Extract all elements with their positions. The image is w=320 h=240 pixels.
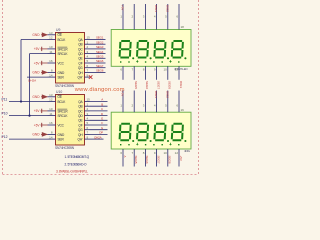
- svg-text:DIG2: DIG2: [165, 5, 169, 12]
- svg-text:SEG6: SEG6: [145, 156, 149, 164]
- pin name GND U9: [58, 71, 65, 75]
- display DS1 top pin 5: [165, 4, 169, 30]
- display DS2 top pin 5: [165, 91, 169, 113]
- svg-text:8: 8: [143, 151, 145, 155]
- svg-text:SEG6: SEG6: [145, 81, 149, 89]
- pin 1 stub right U9: [85, 40, 90, 44]
- net label G: [101, 126, 104, 130]
- pin name VCC U10: [58, 123, 65, 127]
- pin 5 stub right U10: [85, 121, 90, 125]
- svg-text:1: 1: [120, 104, 122, 108]
- wire U9 QC net: [90, 48, 106, 50]
- pin 2 stub right U9: [85, 45, 90, 49]
- pin name SRCLK U10: [58, 114, 69, 118]
- svg-text:A: A: [123, 156, 127, 158]
- svg-text:9: 9: [154, 151, 156, 155]
- svg-text:QF: QF: [78, 123, 82, 127]
- svg-text:6: 6: [176, 104, 178, 108]
- svg-text:SRCLK: SRCLK: [58, 114, 69, 118]
- net label QH2A on U10 QH': [94, 135, 102, 139]
- svg-text:6: 6: [120, 68, 122, 72]
- pin 13 stub left U10: [48, 93, 56, 97]
- svg-text:BCLK: BCLK: [58, 100, 67, 104]
- svg-text:16: 16: [49, 59, 53, 63]
- pin name QB U9: [78, 43, 82, 47]
- svg-text:SEG5: SEG5: [96, 55, 104, 59]
- pin name QA U9: [78, 38, 83, 42]
- svg-text:+5V: +5V: [121, 5, 125, 10]
- pin 9 stub right U10: [85, 135, 90, 139]
- svg-text:SEG1: SEG1: [96, 36, 104, 40]
- pin name QH U9: [78, 71, 83, 75]
- pin name SER U9: [58, 76, 65, 80]
- net label C: [101, 107, 104, 111]
- svg-text:QH2A: QH2A: [28, 78, 36, 82]
- svg-text:10: 10: [163, 68, 167, 72]
- display DS1 top pin 4: [154, 4, 158, 30]
- svg-text:BCLK: BCLK: [58, 38, 67, 42]
- display DS2 bottom pin 10: [163, 149, 171, 167]
- wire U10 QD net: [90, 115, 108, 117]
- svg-text:13: 13: [49, 93, 53, 97]
- IC U10 74HC595 body: [56, 95, 85, 146]
- digit 8 #3 of DS1: [154, 41, 165, 58]
- net label SEG5: [96, 55, 104, 59]
- pin name QF U10: [78, 123, 82, 127]
- pin 2 stub right U10: [85, 107, 90, 111]
- pin name QD U10: [78, 114, 83, 118]
- svg-text:SEG7: SEG7: [156, 81, 160, 89]
- pin 14 stub left U10: [48, 135, 56, 139]
- svg-text:12: 12: [175, 151, 179, 155]
- svg-text:12: 12: [49, 98, 53, 102]
- svg-text:SEG8: SEG8: [168, 156, 172, 164]
- pin 16 stub left U10: [48, 121, 56, 125]
- net label SEG1: [96, 36, 104, 40]
- svg-text:18: 18: [181, 25, 185, 29]
- svg-text:3: 3: [143, 104, 145, 108]
- pin name OE U10: [58, 95, 62, 99]
- svg-text:5: 5: [165, 104, 167, 108]
- pin name QC U9: [78, 47, 83, 51]
- pin 13 stub left U9: [48, 31, 56, 35]
- pin name QC U10: [78, 109, 83, 113]
- svg-text:6: 6: [176, 15, 178, 19]
- wire U9 QA net: [90, 39, 106, 41]
- svg-text:DIG1: DIG1: [154, 91, 158, 98]
- svg-text:GND: GND: [32, 95, 40, 99]
- pin 4 stub right U9: [85, 55, 90, 59]
- display DS2 bottom pin 6: [120, 149, 126, 167]
- svg-text:G: G: [101, 126, 104, 130]
- svg-text:+5V: +5V: [34, 123, 41, 127]
- svg-text:SER: SER: [58, 76, 65, 80]
- svg-text:SER: SER: [58, 138, 65, 142]
- svg-text:4: 4: [154, 15, 156, 19]
- wire U10 QC net: [90, 110, 108, 112]
- net label D: [101, 112, 104, 116]
- pin 4 stub right U10: [85, 117, 90, 121]
- svg-text:2: 2: [132, 15, 134, 19]
- svg-text:7: 7: [132, 68, 134, 72]
- pin name QG U10: [78, 128, 83, 132]
- decimal point #4 of DS1: [184, 57, 186, 59]
- svg-text:QE: QE: [78, 119, 82, 123]
- net label P10: [2, 112, 8, 116]
- wire U10 QG net: [90, 129, 108, 131]
- wire U10 QH net: [90, 133, 108, 135]
- svg-text:GND: GND: [32, 71, 40, 75]
- display DS2 type label: [184, 149, 191, 153]
- wire U9 QG net: [90, 67, 106, 69]
- display DS2 bottom pin 9: [154, 149, 160, 167]
- pin 8 stub left U10: [48, 131, 56, 135]
- pin name SRCLK U9: [58, 52, 69, 56]
- svg-text:1: 1: [120, 15, 122, 19]
- svg-text:QH': QH': [78, 138, 83, 142]
- svg-text:SEG8: SEG8: [168, 81, 172, 89]
- pin name OE U9: [58, 33, 62, 37]
- svg-text:SEG4: SEG4: [96, 50, 104, 54]
- wire P10 to U10 SRCLK: [9, 115, 48, 117]
- pin name QA U10: [78, 100, 83, 104]
- display DS2 bottom pin 12: [175, 149, 183, 167]
- svg-text:QG: QG: [78, 128, 83, 132]
- svg-text:SN74HC595N: SN74HC595N: [55, 84, 75, 88]
- IC U10 part number SN74HC595N: [55, 146, 75, 150]
- wire U9 SER stub: [27, 76, 48, 78]
- pin 7 stub right U9: [85, 69, 90, 73]
- pin 6 stub right U9: [85, 64, 90, 68]
- display DS1 bottom pin 10: [163, 66, 171, 89]
- svg-text:SN74HC595N: SN74HC595N: [55, 146, 75, 150]
- display DS2 top pin 4: [154, 91, 158, 113]
- svg-text:SRCLR: SRCLR: [58, 47, 69, 51]
- net label SEG3: [96, 45, 104, 49]
- power port +5V at U9 SRCLR: [34, 47, 48, 52]
- display DS1 bottom pin 9: [154, 66, 160, 89]
- pin 3 stub right U10: [85, 112, 90, 116]
- pin 12 stub left U9: [48, 36, 56, 40]
- svg-text:U9: U9: [56, 28, 60, 32]
- pin name SRCLR U10: [58, 109, 69, 113]
- watermark www.diangon.com: [74, 87, 125, 93]
- pin 15 stub right U10: [85, 98, 91, 102]
- svg-text:QB: QB: [78, 43, 82, 47]
- pin name BCLK U10: [58, 100, 67, 104]
- svg-text:U10: U10: [56, 90, 62, 94]
- svg-text:9: 9: [87, 135, 89, 139]
- svg-text:16: 16: [49, 121, 53, 125]
- power port GND at U10 OE: [32, 94, 48, 99]
- svg-text:VCC: VCC: [58, 123, 65, 127]
- svg-text:4DIG: 4DIG: [184, 149, 191, 153]
- svg-text:10: 10: [163, 151, 167, 155]
- svg-text:SEG5: SEG5: [134, 156, 138, 164]
- svg-text:GND: GND: [58, 71, 65, 75]
- svg-text:7: 7: [132, 151, 134, 155]
- pin 11 stub left U10: [48, 112, 56, 116]
- pin 9 stub right U9: [85, 73, 90, 77]
- net label E: [101, 117, 103, 121]
- net label SEG6: [96, 59, 104, 63]
- pin 6 stub right U10: [85, 126, 90, 130]
- pin name SER U10: [58, 138, 65, 142]
- svg-text:DIG2: DIG2: [165, 91, 169, 98]
- net label P11: [2, 98, 8, 102]
- svg-text:SEG8: SEG8: [96, 69, 104, 73]
- net label SEG8: [96, 69, 104, 73]
- svg-text:16: 16: [181, 108, 185, 112]
- wire U9 SRCLK to bus: [30, 53, 48, 55]
- svg-text:VCC: VCC: [58, 61, 65, 65]
- svg-text:QE: QE: [78, 57, 82, 61]
- svg-text:5: 5: [165, 15, 167, 19]
- note line 3: [56, 170, 88, 174]
- pin name VCC U9: [58, 61, 65, 65]
- wire U10 QA net: [90, 101, 108, 103]
- display DS2 top pin 3: [143, 91, 146, 113]
- svg-text:A: A: [101, 98, 103, 102]
- svg-text:1. 5TE0N68GMT-Q: 1. 5TE0N68GMT-Q: [65, 155, 90, 159]
- svg-text:www.diangon.com: www.diangon.com: [74, 87, 125, 93]
- sheet border left: [2, 0, 4, 175]
- svg-text:SEG7: SEG7: [156, 156, 160, 164]
- svg-text:OE: OE: [58, 95, 62, 99]
- pin 14 stub left U9: [48, 73, 56, 77]
- wire U9 QH net: [90, 71, 106, 73]
- svg-text:DIG1: DIG1: [154, 5, 158, 12]
- wire vertical P10 bus: [29, 54, 31, 116]
- svg-text:10: 10: [49, 107, 53, 111]
- svg-text:QH': QH': [78, 76, 83, 80]
- pin 8 stub left U9: [48, 69, 56, 73]
- sheet border right: [198, 0, 200, 175]
- pin 7 stub right U10: [85, 131, 90, 135]
- display DS1 4-digit 7-segment body: [111, 30, 191, 67]
- note line 2: [65, 162, 88, 166]
- digit 8 #2 of DS2: [137, 124, 148, 141]
- svg-text:SRCLK: SRCLK: [58, 52, 69, 56]
- svg-text:QB: QB: [78, 105, 82, 109]
- svg-text:QF: QF: [78, 61, 82, 65]
- digit 8 #1 of DS2: [120, 124, 131, 141]
- segment tick marks of DS2: [120, 143, 180, 146]
- power port GND at U9 GND: [32, 70, 48, 75]
- display DS1 bottom pin 8: [143, 66, 149, 89]
- pin name QG U9: [78, 66, 83, 70]
- svg-text:OE: OE: [58, 33, 62, 37]
- svg-text:8: 8: [143, 68, 145, 72]
- net label DP: [99, 131, 103, 135]
- power port GND at U10 GND: [32, 132, 48, 137]
- pin name QH&#39; U9: [78, 76, 83, 80]
- svg-text:GND: GND: [58, 133, 65, 137]
- IC U9 designator: [56, 28, 60, 32]
- net label SEG7: [96, 64, 104, 68]
- svg-text:6: 6: [120, 151, 122, 155]
- pin name QB U10: [78, 105, 82, 109]
- pin 10 stub left U9: [48, 45, 56, 49]
- pin name QH U10: [78, 133, 83, 137]
- svg-text:B: B: [101, 102, 103, 106]
- svg-text:3. 8YA8GL-GVJ8-NNPLL: 3. 8YA8GL-GVJ8-NNPLL: [56, 170, 88, 174]
- decimal point #2 of DS1: [150, 57, 152, 59]
- decimal point #3 of DS2: [167, 140, 169, 142]
- decimal point #4 of DS2: [184, 140, 186, 142]
- display DS1 type label: [174, 67, 188, 71]
- svg-text:QG: QG: [78, 66, 83, 70]
- net label A: [101, 98, 103, 102]
- svg-text:+5V: +5V: [34, 47, 41, 51]
- note line 1: [65, 155, 90, 159]
- svg-text:DIG3: DIG3: [179, 81, 183, 88]
- pin name QH&#39; U10: [78, 138, 83, 142]
- net label SEG2: [96, 40, 104, 44]
- power port +5V at U10 VCC: [34, 123, 48, 128]
- display DS1 bottom pin 12: [175, 66, 183, 88]
- wire U9 QD net: [90, 53, 106, 55]
- svg-text:P12: P12: [2, 135, 8, 139]
- net label B: [101, 102, 103, 106]
- svg-text:SEG2: SEG2: [96, 40, 104, 44]
- svg-text:SEG7: SEG7: [96, 64, 104, 68]
- svg-text:SEG5: SEG5: [134, 81, 138, 89]
- wire P12 to U10 SER: [9, 138, 48, 140]
- svg-text:DP: DP: [99, 131, 103, 135]
- svg-text:12: 12: [49, 36, 53, 40]
- display DS1 corner pin number 18: [181, 25, 185, 29]
- pin name SRCLR U9: [58, 47, 69, 51]
- power port +5V at U10 SRCLR: [34, 109, 48, 114]
- display DS2 top pin 1: [120, 91, 124, 113]
- net label F: [101, 121, 103, 125]
- svg-text:6: 6: [87, 126, 89, 130]
- no connect X on U9 QH': [89, 75, 93, 79]
- pin 16 stub left U9: [48, 59, 56, 63]
- pin 10 stub left U10: [48, 107, 56, 111]
- junction P10 bus: [28, 115, 30, 117]
- wire U10 QE net: [90, 119, 108, 121]
- decimal point #2 of DS2: [150, 140, 152, 142]
- svg-text:P11: P11: [2, 98, 8, 102]
- svg-text:11: 11: [49, 112, 52, 116]
- pin 11 stub left U9: [48, 50, 56, 54]
- svg-text:SEG3: SEG3: [96, 45, 104, 49]
- svg-text:11: 11: [49, 50, 52, 54]
- svg-text:14: 14: [49, 135, 53, 139]
- digit 8 #2 of DS1: [137, 41, 148, 58]
- svg-text:3: 3: [143, 15, 145, 19]
- display DS2 bottom pin 7: [132, 149, 138, 167]
- wire U9 QB net: [90, 43, 106, 45]
- power port GND at U9 OE: [32, 32, 48, 37]
- svg-text:10: 10: [49, 45, 53, 49]
- svg-text:2. 5TE0666HD-O: 2. 5TE0666HD-O: [65, 162, 88, 166]
- pin 12 stub left U10: [48, 98, 56, 102]
- display DS2 4-digit 7-segment body: [111, 112, 191, 149]
- wire U9 QE net: [90, 57, 106, 59]
- decimal point #1 of DS2: [132, 140, 134, 142]
- display DS1 bottom pin 7: [132, 66, 138, 89]
- display DS1 top pin 2: [132, 4, 135, 30]
- segment tick marks of DS1: [120, 60, 180, 63]
- display DS1 bottom pin 6: [120, 66, 123, 80]
- wire P11 to U10 BCLK: [9, 101, 48, 103]
- digit 8 #1 of DS1: [120, 41, 131, 58]
- svg-text:P10: P10: [2, 112, 8, 116]
- display DS2 top pin 6: [176, 91, 179, 113]
- pin name QF U9: [78, 61, 82, 65]
- IC U9 74HC595 body: [56, 33, 85, 84]
- display DS2 corner pin number 16: [181, 108, 185, 112]
- wire U9 BCLK to bus: [21, 39, 48, 41]
- svg-text:SEG6: SEG6: [96, 59, 104, 63]
- IC U9 part number SN74HC595N: [55, 84, 75, 88]
- svg-text:E: E: [101, 117, 103, 121]
- IC U10 designator: [56, 90, 62, 94]
- junction P11 bus: [20, 100, 22, 102]
- wire vertical P11 bus: [20, 40, 22, 102]
- net label SEG4: [96, 50, 104, 54]
- svg-text:GND: GND: [32, 33, 40, 37]
- pin name BCLK U9: [58, 38, 67, 42]
- svg-text:9: 9: [154, 68, 156, 72]
- svg-text:12: 12: [175, 68, 179, 72]
- wire U10 QF net: [90, 124, 108, 126]
- pin name GND U10: [58, 133, 65, 137]
- wire U10 QH' cascade: [90, 138, 104, 140]
- wire U9 QF net: [90, 62, 106, 64]
- svg-text:13: 13: [49, 31, 53, 35]
- pin name QD U9: [78, 52, 83, 56]
- svg-text:SRCLR: SRCLR: [58, 109, 69, 113]
- svg-text:+5V: +5V: [34, 109, 41, 113]
- svg-text:GND: GND: [32, 133, 40, 137]
- pin 5 stub right U9: [85, 59, 90, 63]
- net label P12: [2, 135, 8, 139]
- wire U10 QB net: [90, 105, 108, 107]
- power port +5V at U9 VCC: [34, 61, 48, 66]
- pin 15 stub right U9: [85, 36, 91, 40]
- sheet border bottom: [3, 174, 199, 176]
- pin 3 stub right U9: [85, 50, 90, 54]
- display DS1 top pin 6: [176, 4, 179, 30]
- digit 8 #4 of DS1: [172, 41, 183, 58]
- digit 8 #4 of DS2: [172, 124, 183, 141]
- digit 8 #3 of DS2: [154, 124, 165, 141]
- display DS1 top pin 3: [143, 4, 146, 30]
- svg-text:4: 4: [154, 104, 156, 108]
- svg-text:QH2A: QH2A: [94, 135, 102, 139]
- display DS2 bottom pin 8: [143, 149, 149, 167]
- svg-text:+5V: +5V: [179, 156, 183, 161]
- svg-text:2: 2: [132, 104, 134, 108]
- display DS1 top pin 1: [120, 4, 124, 30]
- net label QH2A on U9 SER: [28, 78, 36, 82]
- decimal point #3 of DS1: [167, 57, 169, 59]
- pin 1 stub right U10: [85, 102, 90, 106]
- pin name QE U10: [78, 119, 82, 123]
- svg-text:14: 14: [49, 73, 53, 77]
- decimal point #1 of DS1: [132, 57, 134, 59]
- display DS2 top pin 2: [132, 91, 135, 113]
- svg-text:+5V: +5V: [34, 61, 41, 65]
- pin name QE U9: [78, 57, 82, 61]
